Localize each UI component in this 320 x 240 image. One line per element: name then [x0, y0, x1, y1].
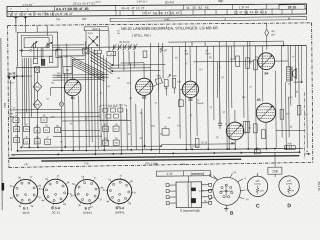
- tube B2 bottom wire: [143, 95, 145, 148]
- svg-text:1Б: 1Б: [115, 124, 118, 126]
- scan edge left line: [0, 38, 3, 210]
- wire right bus 6: [212, 46, 215, 120]
- tube B1 anode wire: [71, 59, 73, 79]
- tape connector body: [176, 182, 202, 208]
- wire v x295: [294, 45, 296, 97]
- svg-text:7г: 7г: [30, 176, 32, 179]
- FM unit crossbar: [19, 49, 30, 51]
- audio wire y146: [161, 143, 233, 146]
- svg-text:05 01 00 47 52: 05 01 00 47 52: [73, 1, 95, 5]
- wire stub C top: [256, 173, 258, 176]
- wire diamond feed: [36, 72, 38, 82]
- wire v x162: [162, 43, 164, 79]
- resistor pair A: [103, 126, 109, 131]
- tube B4 (EL84): [258, 53, 275, 70]
- blob radiating wire 7: [240, 190, 245, 191]
- svg-text:ЧМБ: ЧМБ: [35, 104, 40, 106]
- svg-text:1ДБ: 1ДБ: [173, 76, 178, 78]
- svg-text:УПТ: УПТ: [9, 114, 14, 116]
- svg-text:рег. тона: рег. тона: [108, 106, 118, 108]
- dial scale row1 dividers: [53, 6, 55, 11]
- tube B3 bottom wire: [189, 98, 191, 150]
- svg-text:25к: 25к: [114, 143, 117, 145]
- scan blob left edge: [2, 183, 5, 191]
- wire v x225: [225, 42, 228, 149]
- svg-text:ОБ: ОБ: [12, 154, 16, 157]
- svg-text:1Б: 1Б: [221, 77, 224, 79]
- gang capacitor arrow 2: [88, 36, 98, 46]
- wire right bus 2: [178, 46, 181, 138]
- svg-text:1Б: 1Б: [290, 127, 293, 129]
- svg-text:см: см: [291, 190, 294, 192]
- svg-text:АПЧ: АПЧ: [88, 32, 93, 35]
- diagonal fan wire 4: [90, 60, 112, 74]
- svg-text:H: H: [288, 16, 290, 20]
- FM unit contact dot a: [21, 49, 23, 51]
- svg-text:1-1А-11-ч: 1-1А-11-ч: [136, 0, 148, 3]
- wire bus left 8: [33, 67, 35, 108]
- box below-left of B3: [178, 100, 183, 107]
- FM unit outer shield box: [17, 32, 58, 67]
- gang capacitor dot: [92, 40, 94, 42]
- svg-text:B: B: [230, 211, 234, 217]
- wire horizontal y45: [52, 44, 84, 46]
- tube B3 (EAF41): [182, 81, 199, 98]
- svg-text:3Б: 3Б: [115, 138, 118, 140]
- svg-text:40-41 4T 15 2Г: 40-41 4T 15 2Г: [121, 6, 145, 10]
- wire v x78: [78, 95, 80, 150]
- svg-text:2Б: 2Б: [36, 137, 39, 139]
- svg-text:Б4: Б4: [264, 71, 268, 75]
- wire v x120b: [120, 104, 122, 154]
- resistor R4 cluster: [14, 137, 20, 142]
- resistor R21: [246, 58, 250, 69]
- blob socket B wiring view: [213, 177, 241, 205]
- svg-text:1г: 1г: [134, 191, 136, 194]
- svg-text:12В: 12В: [272, 169, 278, 173]
- tube B1 grid wire: [51, 87, 65, 89]
- lower horizontal rail 1: [23, 146, 161, 147]
- diagonal fan line 3: [70, 60, 104, 77]
- resistor R3 cluster: [44, 127, 50, 132]
- wire v x130: [129, 63, 132, 146]
- gang wire v3: [108, 31, 110, 52]
- svg-text:ЖК: ЖК: [82, 17, 87, 21]
- tube B3 top wire: [189, 46, 191, 81]
- wire stub ruler to unit a: [15, 23, 17, 33]
- FM unit coil bars: [32, 43, 34, 48]
- wire v x233: [233, 42, 235, 60]
- tube B2 (EBF41): [136, 78, 153, 95]
- resistor R6 cluster: [34, 139, 40, 144]
- wire bus left 6: [28, 58, 31, 147]
- svg-text:50к: 50к: [35, 141, 38, 143]
- wire diamond 2 down: [37, 109, 39, 147]
- IF transformer box right of B2: [155, 78, 162, 85]
- lower horizontal rail 3: [11, 152, 299, 155]
- resistor R1 cluster: [14, 126, 20, 131]
- wire mid bus 2: [87, 44, 90, 146]
- wire right bus 1: [171, 47, 173, 88]
- wire B5 bottom: [265, 122, 267, 148]
- resistor R2 cluster: [24, 126, 30, 131]
- choke box right of B6: [243, 121, 250, 132]
- chassis ground rail 2: [41, 159, 241, 161]
- svg-text:4Б: 4Б: [45, 125, 48, 127]
- svg-text:1Б: 1Б: [255, 57, 258, 59]
- svg-text:5к: 5к: [105, 143, 107, 145]
- output transformer winding: [287, 67, 291, 82]
- component box x56: [56, 50, 62, 58]
- dial scale outer box: [7, 4, 307, 17]
- diagonal fan wire 2: [90, 54, 112, 68]
- svg-text:4Б: 4Б: [104, 124, 107, 126]
- svg-text:(схем): (схем): [254, 183, 261, 185]
- resistor pair B: [113, 126, 119, 131]
- svg-text:4Б: 4Б: [295, 91, 298, 93]
- svg-text:2Б: 2Б: [216, 137, 219, 139]
- socket B3-4 bottom view: [107, 179, 132, 204]
- wire mid bus 7: [102, 55, 105, 150]
- tube B6 small: [226, 122, 244, 140]
- left bus crossing wire: [7, 75, 31, 77]
- wire h y133 right: [276, 129, 304, 131]
- svg-text:D: D: [287, 203, 291, 209]
- socket B3-A bottom view: [43, 179, 68, 204]
- svg-text:NR.01 LANGBØLGEOMRÅDA, STILLIN: NR.01 LANGBØLGEOMRÅDA, STILLINGER: LG-MB…: [121, 25, 218, 31]
- wire v x141: [141, 109, 143, 154]
- capacitor C8 cluster: [55, 128, 61, 133]
- svg-text:1Б: 1Б: [60, 142, 63, 144]
- svg-text:П (магнитоф): П (магнитоф): [180, 209, 200, 213]
- wire far right 1: [254, 46, 257, 153]
- mid horizontal wire e: [62, 119, 131, 122]
- gang capacitor arrow 1: [88, 36, 98, 46]
- socket D diagram: [279, 176, 300, 197]
- socket B1 bottom view: [13, 179, 38, 204]
- wire v x57: [57, 44, 59, 50]
- svg-text:8-45: 8-45: [164, 17, 170, 21]
- FM unit inner box 2: [21, 35, 52, 56]
- lower horizontal rail 2: [17, 148, 303, 150]
- wire unit top to border: [36, 25, 38, 32]
- gang section box B: [94, 50, 101, 54]
- wire bus left 1: [10, 80, 13, 151]
- RF choke top: [266, 23, 268, 28]
- wire v x219b: [218, 62, 221, 120]
- FM unit internal verticals: [33, 48, 35, 59]
- blob radiating wire 5: [209, 197, 214, 200]
- svg-text:ЛБ КБ СБ: ЛБ КБ СБ: [119, 41, 130, 44]
- schematic frame left border: [8, 25, 9, 167]
- svg-text:1г: 1г: [99, 198, 101, 201]
- transformer core lines: [290, 67, 292, 81]
- wire mid bus 8: [105, 57, 108, 142]
- resistor R22: [195, 138, 199, 147]
- FM variable cap arrow 2: [45, 42, 52, 47]
- resistor R23: [254, 60, 258, 70]
- tube B1 (EK43): [64, 79, 81, 96]
- wire B2 to components: [153, 85, 156, 87]
- blob radiating wire 3: [239, 197, 245, 199]
- wire bus left 2: [16, 67, 19, 151]
- wire stub x191: [191, 42, 193, 46]
- mid horizontal wire c: [15, 111, 100, 114]
- svg-text:1к: 1к: [15, 120, 17, 122]
- svg-text:1Б: 1Б: [15, 125, 18, 127]
- terminal strip box: [156, 171, 210, 177]
- svg-text:1М: 1М: [230, 59, 233, 61]
- wire v x66: [66, 43, 68, 79]
- wire 12V to D: [274, 174, 276, 177]
- trimmer drop wire 3: [123, 51, 125, 71]
- svg-text:Б6: Б6: [231, 141, 235, 145]
- svg-text:41 30 82 4Б: 41 30 82 4Б: [186, 6, 209, 10]
- svg-text:500м: 500м: [57, 76, 63, 78]
- svg-text:ЭК43: ЭК43: [22, 211, 30, 215]
- wire far right 5: [285, 82, 288, 148]
- wire mid bus 4: [93, 49, 96, 154]
- blob ground symbol: [225, 205, 227, 208]
- tube B2 top wire: [143, 63, 145, 78]
- svg-text:10к: 10к: [25, 129, 28, 131]
- wire right bus 9: [242, 46, 245, 118]
- svg-text:7уГ 3Г 30 3Г 4Б 2Г 4Б Г 4Б 1Б: 7уГ 3Г 30 3Г 4Б 2Г 4Б Г 4Б 1Б 2A 3Г 4Б 2…: [8, 12, 73, 17]
- resistor R15 right of B2: [173, 78, 176, 88]
- B+ rail horizontal: [100, 45, 306, 47]
- wire v x231: [230, 46, 233, 108]
- fold line dash-dot vertical right: [303, 92, 306, 159]
- IF diamond 2: [33, 100, 42, 110]
- mid horizontal wire b: [111, 70, 161, 72]
- antenna FM arrow: [13, 73, 15, 79]
- arrow to B right: [304, 153, 310, 155]
- svg-text:1Б: 1Б: [15, 136, 18, 138]
- diagonal fan wire 3: [90, 57, 112, 71]
- svg-text:15К: 15К: [184, 54, 189, 56]
- svg-text:ПБ: ПБ: [25, 162, 29, 166]
- svg-text:1 44 4уГ: 1 44 4уГ: [22, 3, 33, 7]
- capacitor C20: [218, 122, 222, 124]
- wire v x288: [288, 98, 290, 138]
- resistor R31: [280, 110, 284, 120]
- tube B1 cathode wire: [72, 96, 74, 151]
- resistor R9 cluster: [13, 117, 19, 122]
- wire horizontal y75: [53, 74, 109, 76]
- diagonal fan line 5: [70, 64, 104, 81]
- box left Q4: [162, 129, 169, 136]
- svg-text:220: 220: [255, 180, 260, 183]
- trimmer drop wire 1: [112, 51, 114, 65]
- capacitor C31: [261, 130, 265, 139]
- wire far right 7: [300, 45, 302, 82]
- svg-text:АБВ ГД: АБВ ГД: [92, 28, 101, 31]
- gang section box C: [107, 51, 116, 55]
- capacitor C30: [253, 124, 257, 133]
- svg-text:5Б: 5Б: [209, 57, 212, 59]
- svg-text:ин-в: ин-в: [95, 1, 101, 4]
- wire stub ruler to unit b: [24, 22, 26, 32]
- secondary rail horizontal: [168, 41, 283, 42]
- tone control inner parts: [103, 108, 108, 112]
- svg-text:(схем): (схем): [286, 183, 293, 185]
- wire lamp vertical: [60, 56, 62, 102]
- svg-text:вып.: вып.: [218, 0, 224, 2]
- svg-text:1Б: 1Б: [51, 83, 54, 85]
- svg-text:28 10: 28 10: [288, 5, 297, 9]
- svg-text:2к: 2к: [47, 142, 49, 144]
- wire speaker bottom: [294, 81, 302, 83]
- dial scale lower strip: [110, 17, 307, 22]
- svg-text:2Г 4Г 5Б 4Б 4Г 1Б 2Г: 2Г 4Г 5Б 4Б 4Г 1Б 2Г: [142, 11, 180, 15]
- wire h y69: [109, 67, 151, 69]
- diagonal fan line 1: [70, 56, 104, 73]
- FM unit contact dot b: [30, 49, 32, 51]
- wire transformer top: [287, 46, 289, 67]
- gang wire v1: [85, 31, 87, 48]
- trimmer capacitor row: [112, 45, 114, 50]
- wire right bus 4: [195, 46, 198, 136]
- trimmer drop wire 5: [133, 51, 135, 68]
- svg-text:УКВ: УКВ: [3, 103, 7, 108]
- wire v x158: [157, 43, 160, 154]
- terminal strip wire: [209, 176, 218, 180]
- tube B5 (EM): [256, 103, 275, 122]
- svg-text:5Б: 5Б: [140, 138, 143, 140]
- wire v x62: [61, 58, 63, 67]
- tube B4 right wire: [275, 60, 288, 62]
- tape connector wire top: [187, 176, 189, 182]
- svg-text:1Б: 1Б: [85, 118, 88, 120]
- wire bus left 3: [21, 58, 24, 147]
- trimmer drop wire 2: [118, 51, 120, 68]
- frequency box 28-10: [279, 5, 305, 10]
- svg-text:ЭАФ41: ЭАФ41: [115, 210, 125, 214]
- wire v x135: [135, 104, 137, 150]
- svg-text:ЭС 41: ЭС 41: [52, 211, 61, 215]
- junction dots on rails: [72, 150, 74, 152]
- pointer tick left: [15, 17, 17, 23]
- wire bus left 7: [30, 58, 33, 117]
- wire h y112 left: [9, 109, 61, 111]
- svg-text:540п: 540п: [205, 53, 211, 55]
- svg-text:2Б: 2Б: [104, 138, 107, 140]
- tube B3 left wire: [180, 88, 182, 90]
- component box APCh2: [63, 66, 72, 73]
- wire between diamonds: [36, 92, 38, 100]
- svg-text:1 3Г 44: 1 3Г 44: [239, 5, 249, 9]
- resistor R11 cluster: [34, 128, 40, 133]
- svg-text:220: 220: [287, 180, 292, 183]
- wire h y56 fmbox: [58, 55, 85, 57]
- schematic frame right border: [312, 23, 313, 162]
- svg-text:[25-34]: [25-34]: [165, 0, 174, 4]
- tape connector pins: [169, 184, 176, 186]
- blob radiating wire 2: [237, 179, 243, 182]
- schematic frame top border: [8, 23, 312, 26]
- svg-text:Б5: Б5: [257, 98, 261, 102]
- resistor R32: [297, 105, 301, 115]
- svg-text:7г: 7г: [57, 175, 59, 178]
- dial scale middle divider line: [7, 9, 306, 12]
- svg-text:1Гф: 1Гф: [84, 162, 89, 165]
- diagonal fan line 2: [70, 58, 104, 75]
- wire B6 bottom: [234, 140, 236, 149]
- wire mid bus 6: [99, 53, 102, 146]
- dial scale tick marks: [11, 11, 13, 16]
- 12V box: [268, 167, 282, 174]
- resistor R20: [236, 56, 240, 67]
- wire mid bus 1: [84, 41, 87, 149]
- svg-text:( STILL. KB ): ( STILL. KB ): [132, 33, 151, 37]
- tone control dashed box: [100, 105, 127, 120]
- svg-text:C: C: [256, 204, 260, 210]
- wire choke to B4: [266, 36, 268, 49]
- svg-text:5к: 5к: [16, 140, 18, 142]
- svg-text:7г: 7г: [120, 175, 122, 178]
- svg-text:7г: 7г: [94, 177, 96, 180]
- wire mid bus 3: [90, 47, 93, 142]
- FM unit bottom box 3: [49, 56, 53, 62]
- wire v x290: [289, 46, 292, 106]
- rail y63 right: [193, 60, 252, 63]
- component box on rail: [254, 150, 260, 154]
- FM unit contact dot c: [56, 49, 58, 51]
- wire bus left 4: [23, 58, 26, 125]
- wire horizontal y78: [53, 76, 109, 78]
- svg-text:ЭГФ41: ЭГФ41: [83, 211, 93, 215]
- wire far right 3: [275, 71, 278, 148]
- wire horizontal y80: [53, 79, 101, 81]
- resistor R5 cluster: [24, 139, 30, 144]
- svg-text:АП: АП: [66, 69, 70, 72]
- wire horizontal y50: [52, 49, 84, 51]
- wire right bus 10: [246, 41, 249, 148]
- gang wire v2: [99, 31, 101, 51]
- IF diamond 1: [33, 82, 42, 92]
- wire v x217: [216, 62, 218, 98]
- wire bus left 5: [25, 58, 27, 113]
- wire far right 2: [261, 46, 263, 102]
- pointer tick right: [24, 16, 26, 22]
- svg-text:[зажимы]: [зажимы]: [191, 172, 204, 176]
- wire v x306 rail end: [305, 45, 308, 148]
- mid horizontal wire d: [21, 116, 100, 119]
- resistor R10 cluster: [41, 117, 47, 122]
- socket B2 bottom view: [75, 179, 100, 204]
- svg-text:1-Ю: 1-Ю: [199, 190, 204, 193]
- wire h y131: [61, 129, 100, 131]
- svg-text:1-42: 1-42: [166, 172, 172, 176]
- svg-text:5М: 5М: [178, 81, 181, 83]
- wire v x150: [149, 43, 152, 150]
- FM unit bottom box 2: [41, 59, 45, 65]
- chassis ground rail thick: [9, 156, 299, 159]
- wire horizontal y48 left: [52, 46, 100, 48]
- wire v x126: [126, 109, 128, 150]
- fan junction dots: [112, 64, 113, 65]
- resistor R7 cluster: [45, 139, 51, 144]
- svg-text:AA 4T 5B 5B 4Г 1Б: AA 4T 5B 5B 4Г 1Б: [56, 7, 89, 11]
- resistor pair D: [113, 140, 119, 145]
- svg-text:3Ч: 3Ч: [246, 198, 249, 201]
- junction lamp circle: [59, 102, 63, 106]
- svg-text:4Б: 4Б: [175, 58, 178, 60]
- svg-text:4МБ: 4МБ: [35, 87, 40, 89]
- blob radiating wire 6: [230, 174, 232, 177]
- svg-text:15мкф: 15мкф: [197, 102, 204, 105]
- FM unit bottom box 1: [33, 58, 37, 63]
